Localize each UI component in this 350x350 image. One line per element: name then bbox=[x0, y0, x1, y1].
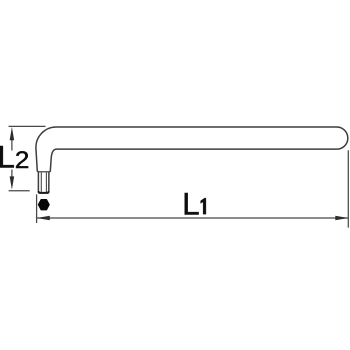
hex tip facet line left bbox=[40, 172, 42, 192]
L2 dimension line upper segment bbox=[11, 140, 13, 151]
hex tip dark bottom edge bbox=[39, 191, 49, 193]
L1 right extension line bbox=[347, 150, 349, 227]
L1 left arrowhead bbox=[37, 216, 50, 221]
L1 dimension line bbox=[37, 217, 349, 219]
svg-text:L: L bbox=[0, 139, 15, 175]
svg-text:L: L bbox=[182, 185, 200, 221]
hex tip facet line right bbox=[45, 172, 47, 192]
hex key shoulder step line bbox=[38, 171, 48, 173]
L2 down arrowhead bbox=[10, 176, 15, 189]
hex key outline bbox=[36, 127, 348, 193]
L2 dimension line lower segment bbox=[11, 170, 13, 178]
hexagon cross-section (filled) bbox=[38, 199, 49, 210]
L2 bottom extension line bbox=[9, 190, 30, 192]
L1 left extension line bbox=[36, 194, 38, 223]
svg-text:2: 2 bbox=[15, 147, 30, 174]
L2 top extension line bbox=[9, 125, 46, 127]
L2 up arrowhead bbox=[10, 127, 15, 140]
L1 right arrowhead bbox=[335, 216, 348, 221]
